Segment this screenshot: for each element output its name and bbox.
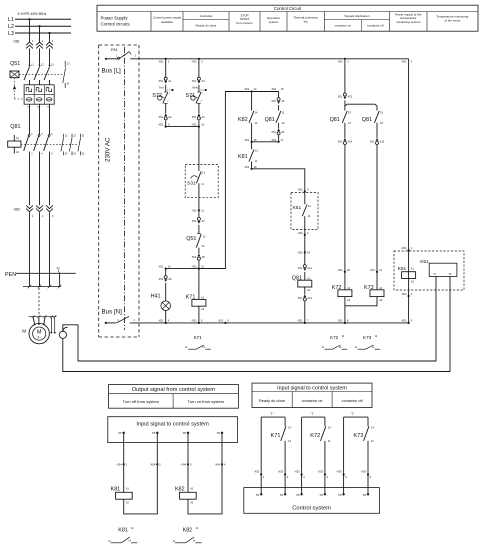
- svg-text:K82: K82: [175, 486, 185, 492]
- svg-text:-X82: -X82: [13, 207, 20, 211]
- svg-text:PE: PE: [57, 268, 61, 271]
- svg-text:A3: A3: [202, 79, 206, 83]
- svg-text:X5: X5: [338, 493, 342, 497]
- svg-text:-X01: -X01: [401, 319, 407, 323]
- svg-text:contactor off: contactor off: [342, 399, 364, 403]
- svg-text:X5: X5: [118, 431, 122, 435]
- svg-text:K82: K82: [238, 117, 248, 123]
- svg-text:Q81: Q81: [10, 124, 20, 130]
- svg-text:-X01: -X01: [158, 319, 164, 323]
- svg-text:contactor on: contactor on: [335, 23, 352, 27]
- svg-text:X51: X51: [370, 140, 375, 144]
- svg-text:K81: K81: [118, 527, 128, 533]
- svg-text:K82: K82: [183, 527, 193, 533]
- svg-text:-X01: -X01: [158, 122, 164, 126]
- svg-text:X51: X51: [298, 266, 303, 270]
- svg-text:Output signal from control sys: Output signal from control system: [132, 387, 216, 393]
- svg-text:X5: X5: [183, 431, 187, 435]
- svg-text:X51: X51: [192, 79, 197, 83]
- svg-text:PEN: PEN: [5, 272, 16, 278]
- svg-text:-X03: -X03: [336, 469, 342, 473]
- svg-text:K81: K81: [238, 154, 248, 160]
- svg-text:K72: K72: [310, 433, 320, 439]
- svg-text:-X01: -X01: [158, 264, 164, 268]
- svg-text:Work: Work: [192, 87, 198, 90]
- svg-text:..: ..: [346, 493, 348, 497]
- svg-text:A1: A1: [168, 79, 172, 83]
- svg-text:Turn on from system: Turn on from system: [188, 399, 225, 404]
- svg-text:X51: X51: [271, 130, 276, 134]
- svg-text:X5: X5: [363, 493, 367, 497]
- svg-text:K81: K81: [111, 486, 121, 492]
- svg-text:of the motor: of the motor: [444, 18, 460, 22]
- svg-text:..: ..: [327, 493, 329, 497]
- svg-text:Q51: Q51: [186, 236, 196, 242]
- svg-text:-X01: -X01: [191, 122, 197, 126]
- svg-text:X51: X51: [271, 99, 276, 103]
- svg-text:Control power supply: Control power supply: [153, 16, 182, 20]
- svg-text:S31: S31: [187, 181, 196, 187]
- svg-text:-X02: -X02: [297, 231, 303, 235]
- svg-text:"1": "1": [311, 411, 315, 415]
- svg-text:X5: X5: [280, 493, 284, 497]
- svg-text:Signals duplication: Signals duplication: [344, 14, 369, 18]
- svg-text:L1: L1: [8, 17, 14, 23]
- svg-text:-X01: -X01: [337, 60, 343, 64]
- svg-text:A12: A12: [307, 296, 312, 300]
- svg-text:-X01: -X01: [337, 268, 343, 272]
- svg-text:-X04: -X04: [150, 463, 156, 467]
- svg-text:-X01: -X01: [244, 138, 250, 142]
- svg-text:X51: X51: [158, 277, 163, 281]
- svg-text:Q81: Q81: [265, 117, 275, 123]
- svg-text:from system: from system: [236, 21, 253, 25]
- svg-text:X5: X5: [152, 431, 156, 435]
- svg-text:-X03: -X03: [294, 469, 300, 473]
- svg-text:..: ..: [224, 431, 226, 435]
- svg-text:Control circuits: Control circuits: [101, 22, 131, 27]
- svg-text:Interlocks: Interlocks: [200, 14, 213, 18]
- svg-text:Ready do close: Ready do close: [196, 23, 217, 27]
- svg-text:-X04: -X04: [116, 463, 122, 467]
- svg-text:Bus [L]: Bus [L]: [102, 68, 122, 75]
- svg-text:Q81: Q81: [362, 117, 372, 123]
- svg-text:Q81: Q81: [330, 117, 340, 123]
- svg-text:S72: S72: [152, 93, 162, 99]
- svg-text:..: ..: [190, 431, 192, 435]
- svg-text:-X04: -X04: [181, 463, 187, 467]
- svg-text:A9: A9: [168, 277, 172, 281]
- svg-text:A2: A2: [168, 115, 172, 119]
- svg-text:A15: A15: [380, 140, 385, 144]
- svg-text:F81: F81: [111, 48, 118, 52]
- svg-text:Power Supply: Power Supply: [101, 16, 129, 21]
- svg-text:A4: A4: [202, 115, 206, 119]
- svg-text:contactor on: contactor on: [302, 399, 323, 403]
- svg-text:K73: K73: [353, 433, 363, 439]
- svg-text:-X01: -X01: [244, 165, 250, 169]
- svg-text:A13: A13: [348, 95, 353, 99]
- svg-text:X51: X51: [338, 140, 343, 144]
- svg-text:A7: A7: [202, 219, 206, 223]
- svg-text:..: ..: [263, 493, 265, 497]
- svg-text:"1": "1": [351, 411, 355, 415]
- svg-text:X5: X5: [256, 493, 260, 497]
- svg-text:-X01: -X01: [191, 319, 197, 323]
- svg-text:M: M: [22, 329, 26, 335]
- svg-text:X51: X51: [298, 296, 303, 300]
- svg-text:X51: X51: [338, 95, 343, 99]
- svg-text:K72: K72: [330, 335, 339, 340]
- svg-text:..: ..: [287, 493, 289, 497]
- svg-text:-X01: -X01: [297, 250, 303, 254]
- svg-text:..: ..: [159, 431, 161, 435]
- svg-text:-X01: -X01: [337, 319, 343, 323]
- svg-text:-X81: -X81: [13, 40, 20, 44]
- svg-text:..: ..: [304, 493, 306, 497]
- svg-text:X51: X51: [158, 79, 163, 83]
- svg-text:-X01: -X01: [271, 138, 277, 142]
- svg-text:230V AC: 230V AC: [105, 137, 112, 162]
- svg-text:-X01: -X01: [218, 319, 224, 323]
- svg-text:Ready do close: Ready do close: [259, 399, 285, 403]
- svg-text:monitoring system: monitoring system: [396, 20, 421, 24]
- svg-text:K71: K71: [194, 335, 203, 340]
- svg-text:K73: K73: [363, 335, 372, 340]
- svg-text:Turn off from system: Turn off from system: [123, 399, 160, 404]
- svg-text:Input signal to control system: Input signal to control system: [136, 422, 209, 428]
- svg-text:contactor off: contactor off: [367, 23, 384, 27]
- svg-text:-X01: -X01: [244, 87, 250, 91]
- svg-text:X5: X5: [319, 493, 323, 497]
- svg-text:-X03: -X03: [278, 469, 284, 473]
- svg-text:..: ..: [370, 493, 372, 497]
- svg-text:-X01: -X01: [401, 60, 407, 64]
- svg-text:-X03: -X03: [361, 469, 367, 473]
- svg-text:A8: A8: [202, 255, 206, 259]
- svg-text:X51: X51: [158, 115, 163, 119]
- svg-text:S71: S71: [186, 93, 196, 99]
- svg-text:-X01: -X01: [271, 87, 277, 91]
- svg-text:L3: L3: [8, 31, 14, 37]
- svg-text:H41: H41: [151, 294, 161, 300]
- svg-text:X51: X51: [192, 255, 197, 259]
- svg-text:-X01: -X01: [191, 60, 197, 64]
- svg-text:Q51: Q51: [10, 61, 20, 67]
- svg-text:L2: L2: [8, 24, 14, 30]
- svg-text:Bus [N]: Bus [N]: [102, 308, 123, 315]
- svg-text:"1": "1": [270, 411, 274, 415]
- svg-text:A5: A5: [281, 99, 285, 103]
- svg-text:Control Circuit: Control Circuit: [274, 6, 302, 11]
- svg-text:Test: Test: [159, 87, 164, 90]
- svg-text:-X02: -X02: [297, 187, 303, 191]
- svg-text:..: ..: [126, 431, 128, 435]
- svg-text:A6: A6: [281, 130, 285, 134]
- svg-text:-X01: -X01: [369, 268, 375, 272]
- svg-text:-X01: -X01: [191, 264, 197, 268]
- svg-text:available: available: [161, 20, 173, 24]
- svg-text:trip: trip: [304, 19, 308, 23]
- svg-text:3~N+PE 400V 50Hz: 3~N+PE 400V 50Hz: [18, 12, 47, 16]
- svg-text:X5: X5: [296, 493, 300, 497]
- svg-text:M: M: [37, 329, 42, 335]
- svg-text:K71: K71: [271, 433, 281, 439]
- svg-text:-X02: -X02: [401, 246, 407, 250]
- svg-text:-X02: -X02: [401, 292, 407, 296]
- svg-text:-X01: -X01: [158, 60, 164, 64]
- svg-text:-X04: -X04: [215, 463, 221, 467]
- svg-text:-X01: -X01: [191, 208, 197, 212]
- svg-text:A11: A11: [307, 266, 312, 270]
- svg-text:X51: X51: [192, 115, 197, 119]
- svg-text:system: system: [269, 20, 279, 24]
- svg-text:X51: X51: [192, 219, 197, 223]
- svg-text:K51: K51: [420, 259, 429, 265]
- svg-text:-X03: -X03: [317, 469, 323, 473]
- svg-text:-X01: -X01: [297, 319, 303, 323]
- svg-text:K51: K51: [293, 205, 302, 211]
- svg-text:3~: 3~: [37, 336, 41, 340]
- svg-text:-X03: -X03: [254, 469, 260, 473]
- svg-text:Control system: Control system: [292, 506, 331, 512]
- svg-text:A14: A14: [348, 140, 353, 144]
- svg-text:Input signal to control system: Input signal to control system: [277, 385, 347, 391]
- svg-text:X5: X5: [217, 431, 221, 435]
